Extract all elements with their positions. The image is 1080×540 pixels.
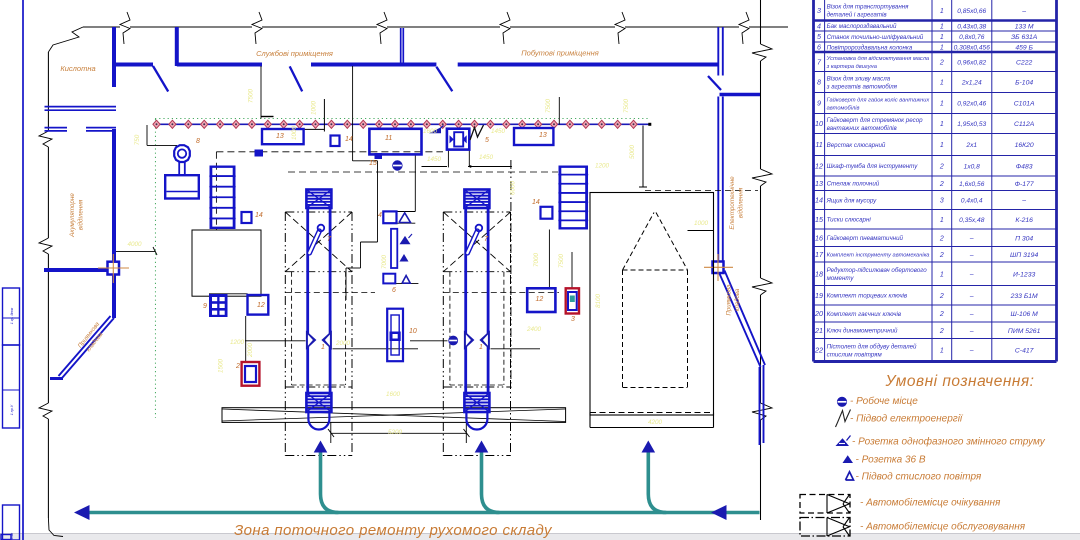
svg-text:деталей і агрегатів: деталей і агрегатів	[827, 12, 888, 19]
svg-text:ШП 3194: ШП 3194	[1010, 252, 1038, 259]
svg-text:15: 15	[369, 160, 377, 167]
partition stub x402	[400, 28, 402, 64]
svg-text:Комплект гаєчних ключів: Комплект гаєчних ключів	[827, 311, 902, 318]
svg-text:С-417: С-417	[1015, 348, 1034, 355]
wall pier vertical x176	[175, 27, 179, 66]
svg-text:Шкаф-тумба для інструменту: Шкаф-тумба для інструменту	[827, 163, 919, 170]
svg-text:13: 13	[815, 179, 823, 188]
dim 2000 pit2	[410, 340, 448, 342]
svg-text:2400: 2400	[526, 326, 542, 333]
dashed vertical x216	[215, 152, 217, 230]
specification table	[814, 0, 1057, 362]
right crop line with break marks	[752, 0, 772, 520]
svg-text:- Робоче місце: - Робоче місце	[850, 395, 918, 407]
item 14 box d	[541, 207, 553, 219]
mid contour steps	[353, 160, 378, 162]
svg-text:кладова: кладова	[735, 288, 741, 311]
svg-text:С112А: С112А	[1014, 121, 1035, 128]
svg-text:12: 12	[536, 296, 544, 303]
svg-text:15: 15	[815, 215, 824, 224]
item 5 machine	[447, 129, 469, 150]
svg-text:1,95х0,53: 1,95х0,53	[957, 121, 986, 128]
svg-text:14: 14	[345, 136, 353, 143]
svg-text:–: –	[969, 252, 974, 259]
svg-text:1: 1	[940, 45, 944, 52]
legend air triangle	[846, 472, 854, 480]
svg-text:14: 14	[255, 212, 263, 219]
item 10 jack	[387, 309, 403, 362]
svg-text:–: –	[969, 235, 974, 242]
svg-text:1000: 1000	[291, 126, 298, 141]
long plate	[391, 229, 397, 268]
bay3 dim line	[688, 230, 714, 232]
svg-text:7500: 7500	[545, 99, 552, 114]
svg-text:Гайковерт для гайок коліс вант: Гайковерт для гайок коліс вантажних	[827, 96, 931, 103]
item 15 vise	[375, 153, 383, 159]
svg-text:1600: 1600	[386, 391, 401, 398]
bay 2 outer dash-dot box	[443, 212, 510, 456]
svg-text:Верстак слюсарний: Верстак слюсарний	[827, 142, 886, 149]
item 4 open triangle	[399, 213, 411, 223]
item 12 box b	[527, 288, 555, 312]
svg-text:2000: 2000	[335, 340, 351, 347]
svg-text:3: 3	[817, 6, 821, 15]
svg-text:–: –	[969, 348, 974, 355]
ext line x559	[558, 97, 560, 125]
svg-text:К-216: К-216	[1015, 217, 1033, 224]
svg-text:Ф-177: Ф-177	[1015, 181, 1034, 188]
svg-text:12: 12	[815, 161, 823, 170]
svg-text:0,92х0,46: 0,92х0,46	[957, 101, 986, 108]
bottom gray status strip	[0, 534, 1080, 540]
ext line x352	[352, 66, 354, 161]
svg-text:вантажних автомобілів: вантажних автомобілів	[827, 125, 898, 132]
teal left arrowhead	[74, 505, 90, 520]
item 11 workbench	[369, 129, 421, 155]
svg-text:1450: 1450	[491, 128, 506, 135]
svg-text:1: 1	[940, 271, 944, 278]
svg-text:1: 1	[940, 217, 944, 224]
svg-text:2: 2	[939, 235, 944, 242]
teal main line	[78, 511, 760, 515]
svg-text:2: 2	[235, 363, 240, 370]
hall double wall top right upper	[717, 27, 719, 76]
svg-text:Комплект інструменту автомехан: Комплект інструменту автомеханіка	[827, 253, 930, 259]
item8 zone contour	[146, 125, 148, 145]
svg-text:моменту: моменту	[827, 275, 855, 282]
wall below node1	[112, 275, 116, 319]
svg-text:16: 16	[815, 233, 823, 242]
wall diagonal down-left double	[62, 318, 114, 378]
svg-text:з картера двигуна: з картера двигуна	[826, 64, 877, 70]
svg-text:Ящик для мусору: Ящик для мусору	[826, 197, 878, 204]
svg-text:С222: С222	[1016, 59, 1032, 66]
contour 9-12 area	[209, 293, 248, 295]
legend power zigzag	[836, 410, 851, 428]
item 14 box a	[331, 136, 340, 147]
svg-text:0,4х0,4: 0,4х0,4	[961, 198, 983, 205]
ext line x643	[642, 126, 644, 188]
svg-text:1000: 1000	[694, 220, 709, 227]
item 12 box a	[248, 295, 269, 315]
item 8 machine	[165, 145, 199, 198]
svg-text:4: 4	[378, 212, 382, 219]
svg-text:–: –	[969, 328, 974, 335]
svg-text:4: 4	[817, 21, 821, 30]
svg-text:459 Б: 459 Б	[1015, 45, 1033, 52]
legend socket 36V	[843, 455, 854, 463]
item 9 pallet	[209, 294, 228, 317]
svg-text:2: 2	[939, 311, 944, 318]
bay3 bottom rect	[590, 413, 714, 428]
svg-text:1500: 1500	[218, 359, 225, 374]
svg-text:10: 10	[815, 119, 823, 128]
svg-text:И-1233: И-1233	[1013, 271, 1035, 278]
wall left horizontal y129 double seg2	[86, 127, 116, 129]
svg-text:8100: 8100	[595, 294, 602, 309]
svg-text:1450: 1450	[479, 154, 494, 161]
shelf ladder A (left)	[209, 166, 235, 230]
legend socket 1ph	[836, 438, 850, 446]
wall diagonal node2 double	[719, 273, 761, 368]
green dotted horizontal	[155, 118, 650, 120]
svg-text:22: 22	[814, 346, 823, 355]
svg-text:1,6х0,56: 1,6х0,56	[959, 181, 985, 188]
svg-text:0,43х0,38: 0,43х0,38	[957, 23, 986, 30]
svg-text:1: 1	[940, 101, 944, 108]
wall stub bottom left	[50, 377, 63, 380]
svg-text:2х1: 2х1	[965, 142, 977, 149]
svg-text:16К20: 16К20	[1015, 142, 1034, 149]
svg-text:1: 1	[940, 8, 944, 15]
legend car service box	[800, 518, 850, 537]
svg-text:1 дтм: 1 дтм	[10, 532, 14, 540]
svg-text:9: 9	[203, 303, 207, 310]
rails band	[222, 408, 566, 423]
svg-text:14: 14	[815, 196, 823, 205]
sheet border vertical blue line	[22, 0, 24, 540]
work area box left	[192, 230, 261, 296]
red cart 2	[242, 362, 260, 386]
door leaf A	[153, 66, 168, 92]
svg-text:233 Б1М: 233 Б1М	[1010, 293, 1038, 300]
svg-text:1200: 1200	[595, 163, 610, 170]
svg-text:3: 3	[940, 198, 944, 205]
svg-text:8: 8	[817, 78, 821, 87]
svg-text:Станок точильно-шліфувальний: Станок точильно-шліфувальний	[827, 34, 924, 41]
svg-text:19: 19	[815, 291, 823, 300]
svg-text:Гайковерт для стремянок ресор: Гайковерт для стремянок ресор	[827, 117, 924, 124]
svg-text:Стелаж полочний: Стелаж полочний	[827, 181, 880, 188]
svg-text:2: 2	[939, 181, 944, 188]
item 13 shelf b	[514, 128, 553, 145]
svg-text:5: 5	[485, 137, 489, 144]
filled triangle b	[400, 254, 409, 262]
svg-text:Побутові приміщення: Побутові приміщення	[521, 49, 599, 58]
svg-text:12: 12	[257, 302, 265, 309]
svg-text:- Автомобілемісце обслуговува: - Автомобілемісце обслуговування	[860, 521, 1026, 533]
svg-text:0,96х0,82: 0,96х0,82	[957, 59, 986, 66]
bay3 car dashed outline	[623, 213, 688, 388]
svg-text:2000: 2000	[247, 343, 254, 359]
svg-text:Ш-106 М: Ш-106 М	[1010, 311, 1038, 318]
svg-text:6: 6	[817, 43, 821, 52]
wall top segment B	[177, 63, 262, 67]
svg-text:750: 750	[134, 134, 141, 145]
svg-text:1: 1	[940, 142, 944, 149]
wall kyslotna right vertical	[112, 27, 116, 87]
svg-text:11: 11	[385, 135, 392, 142]
item 6 open triangle	[402, 276, 410, 284]
svg-text:20: 20	[814, 309, 823, 318]
workplace dot pit2	[449, 336, 458, 345]
bay 2 car dashed outline	[450, 272, 504, 385]
svg-text:7500: 7500	[558, 254, 565, 269]
svg-text:133 М: 133 М	[1015, 23, 1034, 30]
svg-text:1000: 1000	[311, 101, 318, 116]
bay 1 outer dash-dot box	[285, 212, 352, 456]
legend car waiting box	[800, 495, 850, 514]
svg-text:2: 2	[939, 59, 944, 66]
svg-text:Ключ динамометричний: Ключ динамометричний	[827, 328, 898, 335]
wall top segment C2	[458, 63, 718, 67]
dashed line y190.5	[645, 190, 758, 192]
svg-text:1600: 1600	[423, 128, 438, 135]
svg-text:Електротехнічне: Електротехнічне	[728, 176, 736, 230]
svg-text:2: 2	[939, 328, 944, 335]
svg-text:8: 8	[196, 138, 200, 145]
dim line 4000 left	[116, 250, 155, 252]
svg-text:11: 11	[815, 140, 822, 149]
dim line 1450 under item5	[422, 166, 448, 168]
svg-text:10: 10	[409, 328, 417, 335]
svg-text:ЗБ 631А: ЗБ 631А	[1011, 34, 1038, 41]
wall left horizontal y108 double	[45, 106, 117, 108]
socket symbol near 11	[429, 127, 441, 133]
left crop line with break marks	[39, 27, 83, 537]
dim between pits	[330, 422, 332, 443]
svg-text:–: –	[969, 293, 974, 300]
power zigzag at item 5	[470, 125, 484, 140]
svg-text:1200: 1200	[230, 339, 245, 346]
svg-text:Пістолет для обдуву деталей: Пістолет для обдуву деталей	[827, 343, 917, 350]
bay 1 car dashed outline	[292, 272, 346, 385]
workplace dot 15	[393, 161, 402, 170]
svg-text:13: 13	[539, 132, 547, 139]
svg-text:2х1,24: 2х1,24	[961, 80, 982, 87]
svg-text:Бак маслороздавальний: Бак маслороздавальний	[827, 23, 897, 30]
wall akum right vertical	[112, 129, 116, 262]
svg-text:5200: 5200	[388, 429, 403, 436]
svg-text:Зона поточного ремонту рухомог: Зона поточного ремонту рухомого складу	[234, 522, 553, 539]
svg-text:18: 18	[815, 269, 823, 278]
svg-text:5000: 5000	[629, 145, 636, 160]
svg-text:3: 3	[571, 316, 575, 323]
socket tick a	[409, 234, 413, 238]
item 13 shelf a	[262, 129, 304, 144]
svg-text:Тиски слюсарні: Тиски слюсарні	[827, 217, 872, 224]
svg-text:21: 21	[814, 326, 823, 335]
svg-text:Кислотна: Кислотна	[60, 64, 95, 73]
svg-text:автомобілів: автомобілів	[827, 105, 860, 111]
ladderB connector	[548, 230, 550, 289]
contour under item4 b	[383, 222, 415, 224]
contour under item6	[383, 282, 418, 284]
bay3 room box	[590, 193, 714, 416]
item 4 box	[383, 211, 396, 223]
door leaf C top right	[708, 76, 721, 90]
wall left bottom horizontal y270	[44, 268, 108, 272]
svg-text:- Автомобілемісце очікування: - Автомобілемісце очікування	[860, 497, 1001, 509]
svg-text:Комплект торцевих ключів: Комплект торцевих ключів	[827, 293, 908, 300]
wall top segment A	[114, 63, 153, 67]
svg-text:Установка для відсмоктування м: Установка для відсмоктування масла	[826, 56, 930, 62]
svg-text:відділення: відділення	[737, 187, 745, 218]
filled triangle a	[400, 236, 411, 244]
item 13a side square	[255, 150, 264, 157]
inspection pit 1	[306, 190, 332, 430]
svg-text:2: 2	[939, 163, 944, 170]
svg-text:- Підвод стислого повітря: - Підвод стислого повітря	[856, 472, 982, 483]
bottom-left tiny blue glyph	[1, 535, 11, 540]
svg-text:1: 1	[479, 344, 483, 351]
svg-text:–: –	[969, 271, 974, 278]
svg-text:П 304: П 304	[1015, 235, 1033, 242]
svg-text:С101А: С101А	[1014, 101, 1035, 108]
svg-text:4000: 4000	[127, 241, 142, 248]
svg-text:1: 1	[940, 121, 944, 128]
svg-text:ПИМ 5261: ПИМ 5261	[1008, 328, 1041, 335]
column node 2	[713, 262, 724, 274]
svg-text:Редуктор-підсилювач обертового: Редуктор-підсилювач обертового	[827, 267, 928, 274]
wall left horizontal y129 double seg1	[45, 127, 68, 129]
svg-text:1 пр.V: 1 пр.V	[10, 404, 14, 415]
shelf ladder B (right)	[558, 166, 588, 230]
svg-text:2: 2	[939, 293, 944, 300]
svg-text:–: –	[969, 311, 974, 318]
svg-text:7000: 7000	[381, 255, 388, 270]
svg-text:з агрегатів автомобіля: з агрегатів автомобіля	[826, 83, 898, 90]
svg-text:Візок для зливу масла: Візок для зливу масла	[827, 75, 891, 82]
dashed line y292 bay1	[285, 292, 375, 294]
svg-text:0,35х,48: 0,35х,48	[959, 217, 985, 224]
svg-text:Приямкова: Приямкова	[727, 284, 733, 316]
dashed line y292 bay2	[443, 292, 559, 294]
svg-text:Візок для транспортування: Візок для транспортування	[827, 4, 910, 11]
teal branch x648	[648, 451, 666, 513]
svg-text:стислим повітрям: стислим повітрям	[827, 351, 883, 358]
svg-text:Повітророздавальна колонка: Повітророздавальна колонка	[827, 44, 913, 51]
door leaf D	[436, 67, 452, 92]
red cart 3	[566, 288, 579, 313]
sheet title-block boxes	[3, 288, 21, 540]
svg-text:1: 1	[940, 348, 944, 355]
svg-text:1450: 1450	[427, 156, 442, 163]
top crop line with break marks	[83, 12, 788, 44]
svg-text:Гайковерт пневматичний: Гайковерт пневматичний	[827, 235, 904, 242]
green dotted vertical	[154, 119, 156, 418]
dash-dot vertical x511	[510, 160, 512, 390]
svg-text:Службові приміщення: Службові приміщення	[256, 49, 333, 58]
teal mid arrowhead	[711, 505, 727, 520]
contour under item4	[383, 211, 415, 213]
svg-text:17: 17	[815, 250, 824, 259]
svg-text:14: 14	[532, 199, 540, 206]
dashed line y152	[216, 151, 443, 153]
svg-text:2: 2	[939, 252, 944, 259]
svg-text:Акумуляторне: Акумуляторне	[69, 193, 76, 238]
svg-text:0,8х0,76: 0,8х0,76	[959, 34, 985, 41]
ext line x262	[260, 66, 262, 119]
svg-text:7500: 7500	[623, 99, 630, 114]
svg-text:1: 1	[321, 344, 325, 351]
svg-text:4200: 4200	[648, 419, 663, 426]
item 14 box b	[242, 212, 252, 223]
ext line x324	[323, 99, 325, 132]
teal branch x320	[321, 451, 339, 513]
svg-text:7500: 7500	[248, 89, 255, 104]
column node 1	[108, 262, 120, 275]
inspection pit 2	[464, 190, 490, 430]
svg-text:0,308х0,456: 0,308х0,456	[954, 45, 991, 52]
svg-text:7000: 7000	[533, 253, 540, 268]
svg-text:Ф483: Ф483	[1016, 163, 1033, 170]
dashed line y172	[288, 171, 558, 173]
svg-text:1 гр. днок: 1 гр. днок	[10, 307, 14, 324]
wall top right horizontal	[720, 93, 761, 96]
svg-text:1х0,8: 1х0,8	[964, 163, 980, 170]
svg-text:6: 6	[392, 287, 396, 294]
svg-text:- Розетка 36 В: - Розетка 36 В	[856, 455, 926, 466]
wall top segment C1	[311, 63, 436, 67]
door leaf B	[290, 66, 303, 91]
svg-text:- Розетка однофазного змінного: - Розетка однофазного змінного струму	[852, 436, 1046, 448]
teal branch x481	[482, 451, 500, 513]
svg-text:0,85х0,66: 0,85х0,66	[957, 8, 986, 15]
svg-text:1: 1	[940, 80, 944, 87]
svg-text:9: 9	[817, 99, 821, 108]
svg-text:Б-104: Б-104	[1015, 80, 1033, 87]
svg-text:6000: 6000	[510, 181, 517, 196]
legend workplace dot	[837, 397, 846, 406]
svg-text:1: 1	[940, 34, 944, 41]
svg-text:Умовні позначення:: Умовні позначення:	[885, 373, 1035, 390]
dim 2000 pit1	[245, 340, 306, 342]
svg-text:13: 13	[276, 133, 284, 140]
svg-text:–: –	[1021, 198, 1026, 205]
svg-text:–: –	[1021, 8, 1026, 15]
wall right vertical double low	[759, 367, 761, 445]
svg-text:відділення: відділення	[77, 199, 85, 230]
svg-text:1: 1	[940, 23, 944, 30]
hall double wall right	[717, 97, 719, 263]
diamond marker line	[153, 120, 649, 128]
item 6 box	[383, 274, 395, 284]
svg-text:- Підвод електроенергії: - Підвод електроенергії	[850, 414, 964, 425]
